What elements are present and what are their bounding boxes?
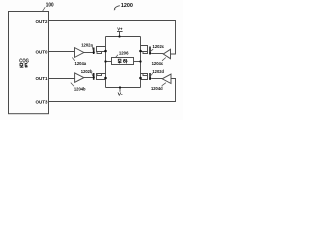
junction dot V+ on top rail [118, 35, 120, 37]
leader line for label 1204c [162, 58, 166, 61]
svg-text:1204b: 1204b [74, 87, 86, 92]
H-bridge right rail [140, 37, 142, 88]
svg-text:1202d: 1202d [152, 69, 164, 74]
leader line for label 1206 [116, 55, 119, 58]
H-bridge bottom rail [106, 87, 141, 89]
transistor Q 1202b body box [97, 74, 102, 76]
junction dot Q 1202c on right rail [139, 50, 142, 53]
svg-text:V+: V+ [117, 26, 123, 32]
transistor Q 1202c body box [143, 52, 148, 54]
leader line for label 1204d [162, 83, 166, 86]
wire load right lead [134, 61, 141, 63]
wire OUT3 from COG to right edge and up to buffer d input [49, 79, 176, 102]
svg-text:OUT2: OUT2 [36, 19, 48, 24]
korean text 부하 (load) inside box 1206 [118, 59, 128, 63]
transistor Q 1202c gate bar [149, 47, 151, 55]
junction dot gate of Q 1202b [93, 76, 95, 78]
wire OUT0 from COG to buffer a input [49, 51, 75, 53]
leader line for label 1204b [71, 83, 74, 87]
wire OUT2 from COG to right edge and down to buffer c input [49, 21, 176, 55]
transistor Q 1202d body box [143, 74, 148, 76]
transistor Q 1202b gate bar [93, 73, 95, 80]
buffer 1204a [75, 48, 84, 58]
leader line for label 1202b [92, 73, 93, 76]
transistor Q 1202d gate bar [149, 73, 151, 80]
buffer 1204c [163, 49, 170, 58]
svg-text:100: 100 [46, 3, 54, 9]
korean text 모듈 (module) under COG [20, 64, 28, 68]
transistor Q 1202c channel [141, 46, 148, 52]
H-bridge left rail [105, 37, 107, 88]
wire load left lead [106, 61, 112, 63]
V+ supply stub [119, 32, 121, 37]
leader line for label 1202d [150, 73, 153, 76]
COG module block 100 [9, 12, 49, 114]
transistor Q 1202a body box [97, 52, 102, 54]
arrowhead of 1200 leader [114, 9, 116, 11]
buffer 1204d [162, 74, 171, 83]
leader arc for label 1200 [114, 6, 120, 10]
svg-text:1204a: 1204a [75, 61, 87, 66]
svg-text:OUT3: OUT3 [36, 100, 48, 105]
leader line for label 1204a [72, 57, 75, 60]
svg-text:1206: 1206 [119, 50, 129, 55]
buffer 1204b [75, 73, 84, 82]
wire buffer c output to gate of Q 1202c [151, 53, 163, 55]
transistor Q 1202b channel [97, 74, 106, 80]
leader line for label 1202a [92, 47, 93, 51]
H-bridge top rail [106, 36, 141, 38]
transistor Q 1202a channel [97, 47, 106, 52]
V- supply stub [119, 88, 121, 92]
wire buffer d output to gate of Q 1202d [151, 78, 162, 80]
junction dot gate of Q 1202d [149, 77, 151, 79]
wire buffer a output to gate of Q 1202a [84, 52, 94, 54]
svg-text:V-: V- [118, 92, 123, 98]
leader line for label 100 [43, 7, 46, 11]
junction dot load left node [104, 60, 106, 62]
junction dot load right node [139, 60, 141, 62]
junction dot Q 1202a on left rail [104, 50, 107, 53]
svg-text:OUT0: OUT0 [36, 50, 48, 55]
junction dot gate of Q 1202a [93, 51, 95, 53]
V+ supply bar [117, 31, 123, 33]
svg-text:1204d: 1204d [151, 86, 163, 91]
svg-text:1202a: 1202a [81, 42, 93, 47]
svg-text:1202c: 1202c [153, 44, 165, 49]
svg-text:1204c: 1204c [152, 61, 164, 66]
wire OUT1 from COG to buffer b input [49, 78, 75, 80]
transistor Q 1202d channel [141, 74, 148, 80]
svg-text:1202b: 1202b [81, 69, 93, 74]
junction dot V- on bottom rail [119, 86, 121, 88]
junction dot Q 1202b on left rail [104, 77, 107, 80]
junction dot Q 1202d on right rail [139, 77, 142, 80]
svg-text:OUT1: OUT1 [36, 76, 48, 81]
leader line for label 1202c [151, 49, 154, 51]
transistor Q 1202a gate bar [93, 48, 95, 55]
svg-text:1200: 1200 [121, 3, 133, 9]
junction dot gate of Q 1202c [149, 52, 151, 54]
wire buffer b output to gate of Q 1202b [84, 77, 94, 79]
load box 1206 [112, 58, 134, 65]
